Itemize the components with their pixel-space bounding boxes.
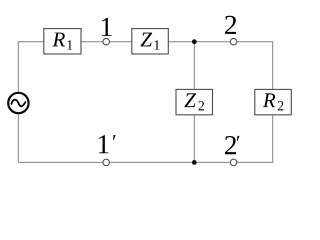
impedance Z2 bbox=[176, 89, 213, 114]
wire: Z2 down to bottom junction bbox=[193, 115, 195, 163]
resistor R2 bbox=[255, 89, 291, 114]
impedance Z1 bbox=[132, 29, 169, 54]
wire: top junction down to Z2 bbox=[193, 42, 195, 90]
wire: R1 to node 1 bbox=[81, 41, 103, 43]
wire: node 1 to Z1 bbox=[109, 41, 131, 43]
node 2 bbox=[230, 38, 237, 45]
resistor R1 bbox=[44, 29, 81, 54]
node 1' bbox=[103, 159, 110, 166]
wire: node 2 to top-right corner down to R2 bbox=[237, 42, 273, 90]
junction: bottom node below Z2 bbox=[192, 160, 197, 165]
node 1 bbox=[103, 38, 110, 45]
AC source bbox=[8, 93, 28, 113]
wire: source top to top-left corner to R1 bbox=[18, 42, 44, 92]
wire: R2 down to bottom-right corner to node 2' bbox=[237, 115, 273, 163]
node 2' bbox=[230, 159, 237, 166]
wire: node 1' to bottom-left corner up to source bottom bbox=[18, 114, 103, 162]
junction: top node between Z1 and node 2 bbox=[192, 39, 197, 44]
wire: node 2' to bottom junction to node 1' bbox=[109, 161, 230, 163]
wire: Z1 to junction to node 2 bbox=[168, 41, 230, 43]
